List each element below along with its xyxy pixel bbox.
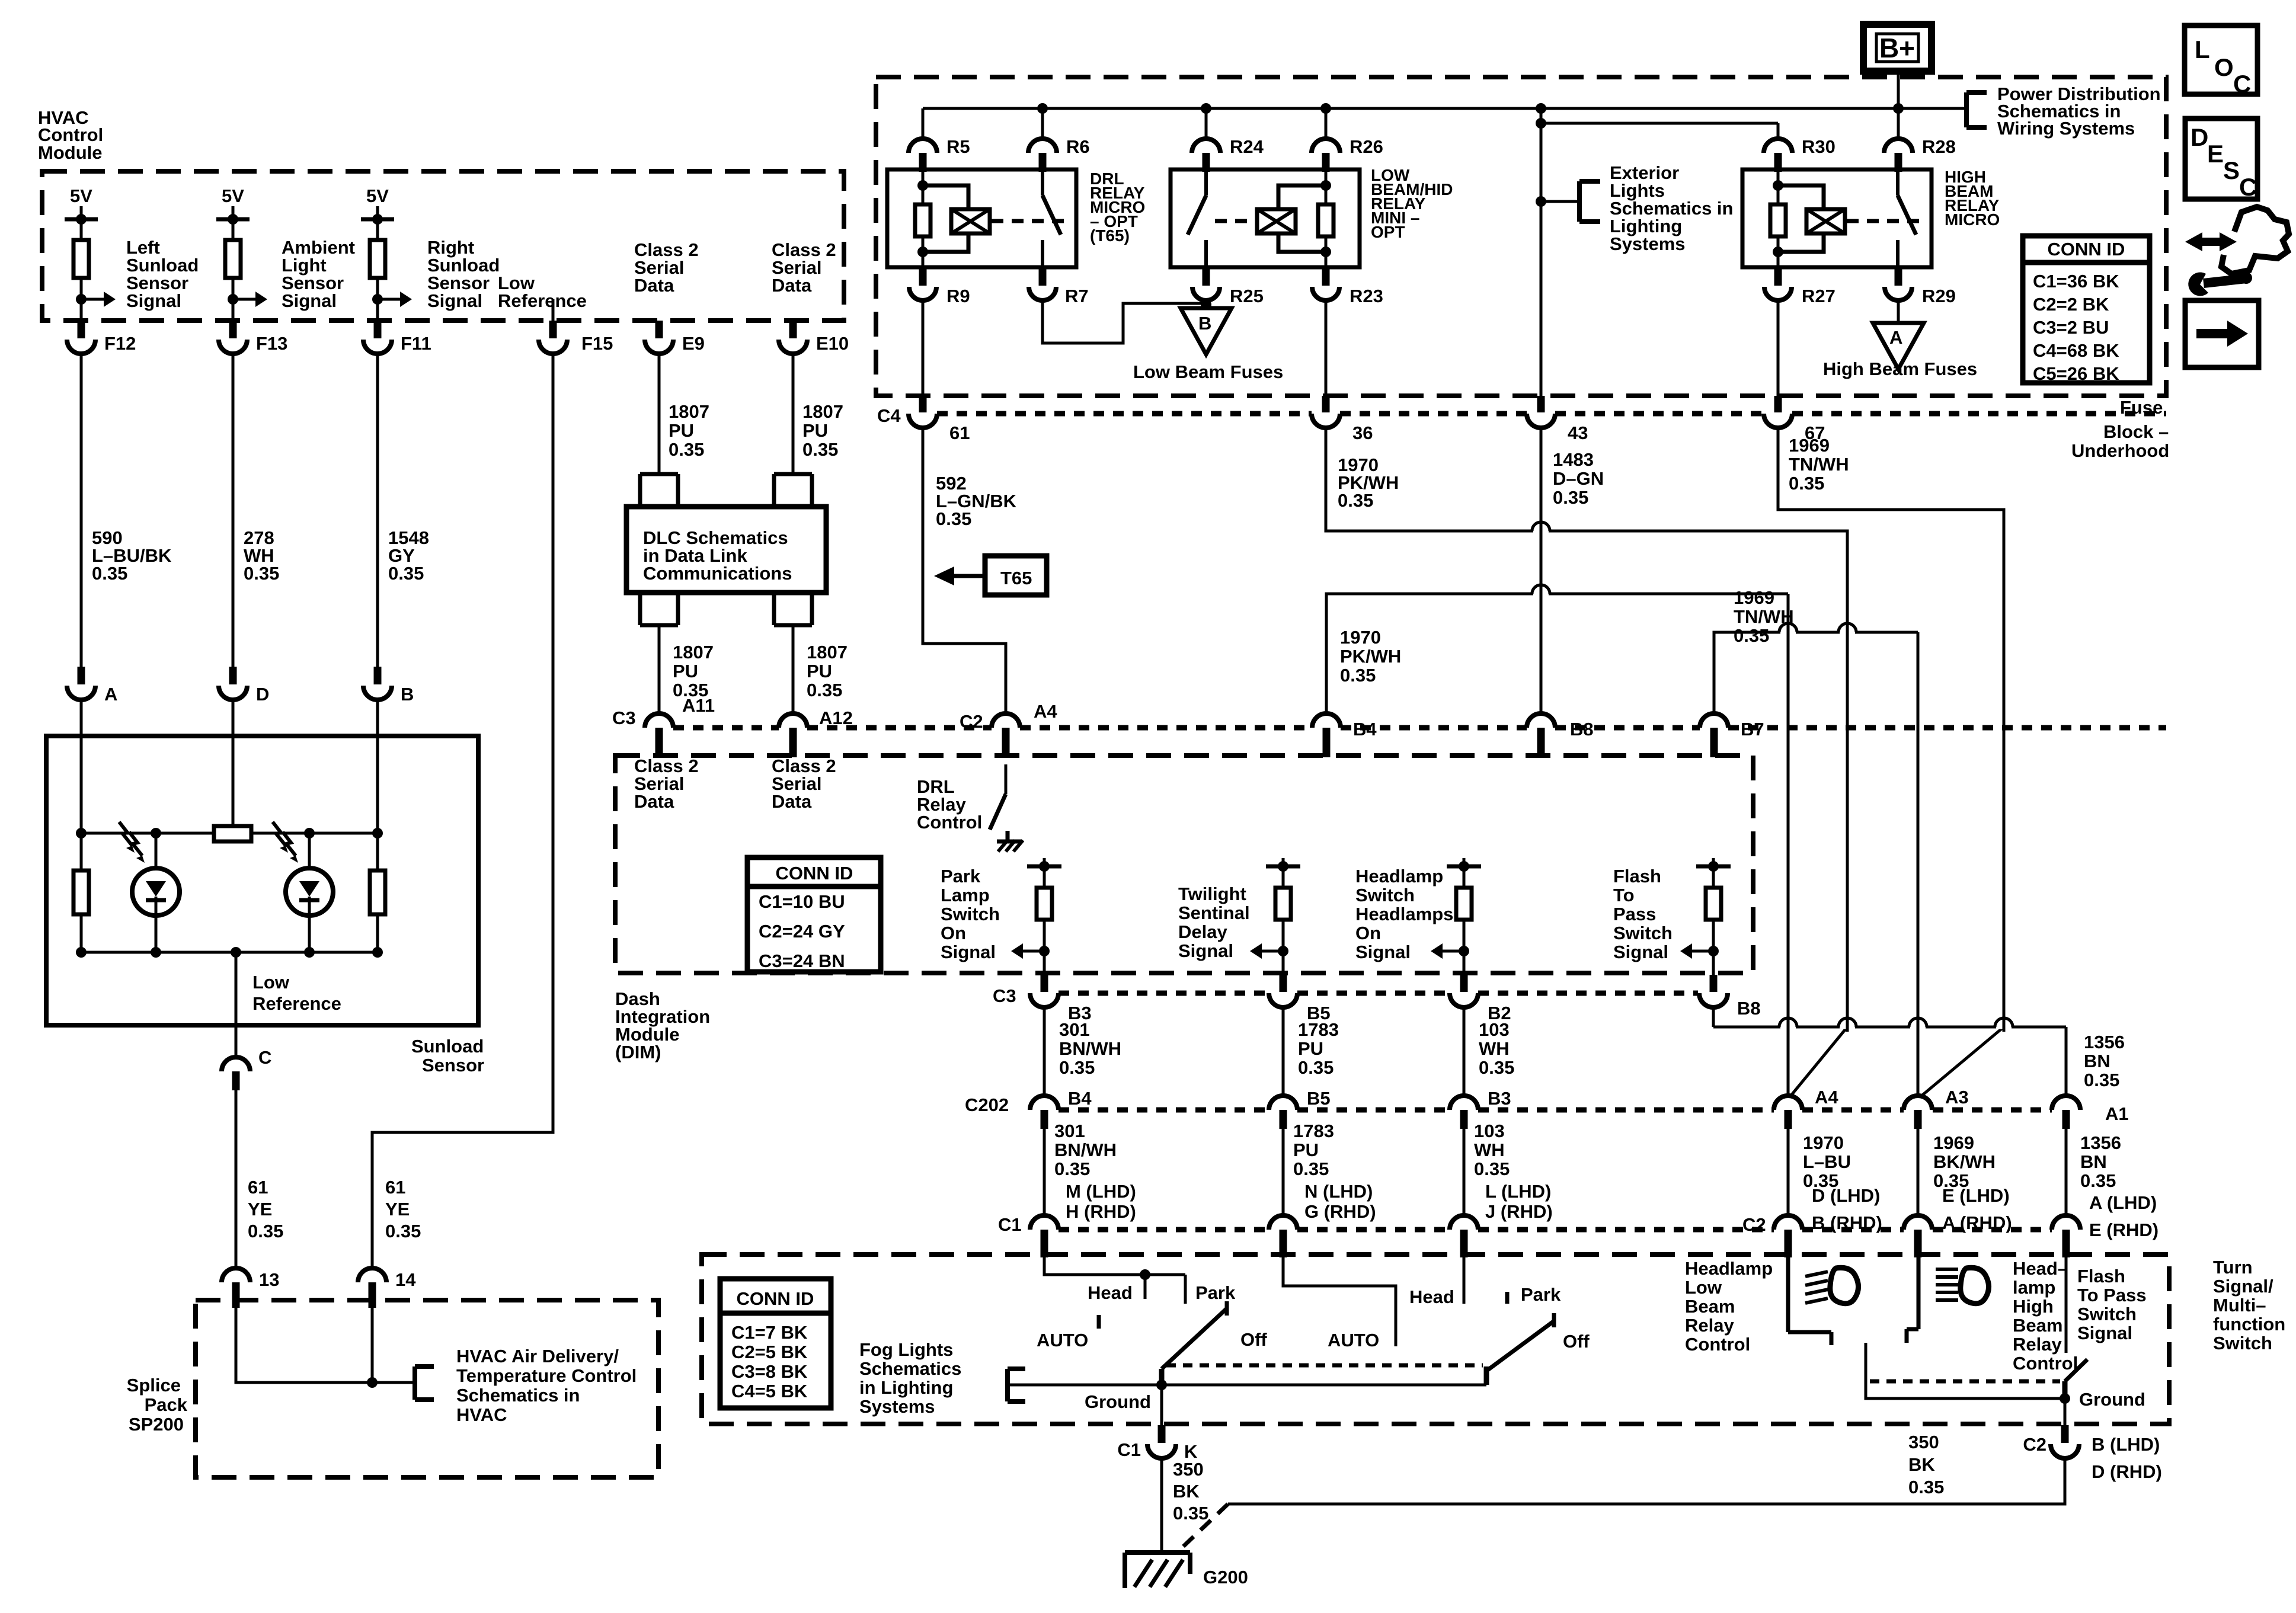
svg-text:D (RHD): D (RHD) [2092,1461,2162,1482]
svg-text:C3: C3 [993,985,1016,1006]
svg-text:in Lighting: in Lighting [859,1377,953,1398]
svg-text:Signal: Signal [1178,940,1233,961]
svg-text:C5=26 BK: C5=26 BK [2033,363,2119,384]
svg-text:0.35: 0.35 [1908,1477,1944,1497]
svg-text:lamp: lamp [2013,1277,2055,1298]
svg-text:N (LHD): N (LHD) [1304,1181,1373,1202]
svg-text:Park: Park [941,866,981,886]
svg-text:0.35: 0.35 [1054,1158,1090,1179]
svg-text:Beam: Beam [1685,1296,1735,1317]
svg-text:C3=24 BN: C3=24 BN [759,950,845,971]
svg-text:PU: PU [807,661,832,681]
svg-text:YE: YE [248,1199,272,1220]
svg-text:C1: C1 [998,1214,1022,1235]
svg-text:Low: Low [252,972,290,993]
svg-text:High: High [2013,1296,2054,1317]
svg-text:Multi–: Multi– [2213,1295,2266,1316]
svg-text:C1=7 BK: C1=7 BK [731,1322,808,1343]
svg-text:Control: Control [917,812,982,833]
svg-text:CONN ID: CONN ID [737,1288,814,1309]
svg-text:C4=68 BK: C4=68 BK [2033,340,2119,361]
svg-text:1969: 1969 [1734,587,1774,608]
svg-text:0.35: 0.35 [1293,1158,1329,1179]
svg-text:1783: 1783 [1293,1121,1334,1141]
svg-text:Signal: Signal [1355,942,1411,962]
svg-text:Sensor: Sensor [422,1055,484,1076]
svg-text:1807: 1807 [669,401,709,422]
svg-text:A: A [1889,327,1902,348]
svg-text:Sunload: Sunload [411,1036,484,1057]
svg-text:Lamp: Lamp [941,885,990,905]
svg-text:L: L [2195,36,2210,63]
svg-text:Ground: Ground [1085,1391,1151,1412]
svg-text:1483: 1483 [1553,449,1594,470]
svg-text:Signal/: Signal/ [2213,1276,2273,1297]
svg-text:C4: C4 [877,405,901,426]
svg-text:Schematics in: Schematics in [456,1385,580,1406]
svg-text:R26: R26 [1350,136,1383,157]
svg-text:AUTO: AUTO [1037,1330,1088,1350]
svg-text:Data: Data [772,275,812,296]
svg-text:301: 301 [1054,1121,1085,1141]
svg-text:PK/WH: PK/WH [1340,646,1401,667]
svg-text:5V: 5V [70,185,92,206]
svg-text:A4: A4 [1815,1087,1838,1108]
svg-text:PU: PU [673,661,698,681]
svg-text:BK/WH: BK/WH [1933,1151,1996,1172]
svg-text:Signal: Signal [282,290,337,311]
svg-text:G (RHD): G (RHD) [1304,1201,1376,1222]
svg-text:Control: Control [2013,1353,2078,1374]
svg-text:S: S [2223,156,2240,184]
svg-text:1356: 1356 [2080,1132,2121,1153]
svg-text:On: On [941,923,966,943]
svg-text:B7: B7 [1741,719,1764,740]
svg-text:Signal: Signal [126,290,181,311]
svg-text:AUTO: AUTO [1328,1330,1379,1350]
svg-text:0.35: 0.35 [1340,665,1376,686]
svg-text:1356: 1356 [2084,1032,2125,1052]
svg-text:Signal: Signal [2077,1323,2132,1343]
svg-text:Schematics: Schematics [859,1358,961,1379]
svg-text:R23: R23 [1350,286,1383,306]
svg-text:L–BU: L–BU [1803,1151,1851,1172]
svg-text:C2=2 BK: C2=2 BK [2033,294,2109,315]
svg-text:R9: R9 [946,286,970,306]
svg-text:A1: A1 [2105,1103,2129,1124]
svg-text:Signal: Signal [941,942,996,962]
svg-text:B+: B+ [1879,33,1915,63]
svg-text:350: 350 [1908,1432,1939,1452]
svg-text:C2=5 BK: C2=5 BK [731,1342,808,1362]
svg-text:F15: F15 [581,333,613,354]
svg-text:R27: R27 [1802,286,1835,306]
svg-text:1969: 1969 [1933,1132,1974,1153]
svg-text:Block –: Block – [2103,421,2169,442]
svg-text:C1=10 BU: C1=10 BU [759,891,845,912]
svg-text:WH: WH [1479,1038,1510,1059]
svg-text:PU: PU [1298,1038,1323,1059]
svg-text:36: 36 [1352,423,1373,443]
svg-text:B: B [1198,313,1211,334]
svg-text:F12: F12 [104,333,136,354]
svg-text:OPT: OPT [1371,223,1405,241]
svg-text:C4=5 BK: C4=5 BK [731,1381,808,1401]
svg-text:Systems: Systems [1610,233,1686,254]
svg-text:61: 61 [248,1177,268,1198]
svg-text:C1=36 BK: C1=36 BK [2033,271,2119,292]
svg-text:R29: R29 [1922,286,1956,306]
svg-text:Fog Lights: Fog Lights [859,1339,953,1360]
svg-text:C3=2 BU: C3=2 BU [2033,317,2109,338]
svg-text:Flash: Flash [1613,866,1661,886]
svg-text:A4: A4 [1034,701,1057,722]
svg-text:Splice: Splice [127,1375,181,1396]
svg-text:Reference: Reference [498,290,587,311]
svg-text:0.35: 0.35 [388,563,424,584]
svg-text:0.35: 0.35 [2084,1070,2119,1090]
svg-text:A12: A12 [819,708,853,728]
svg-text:Pass: Pass [1613,904,1656,924]
svg-text:PU: PU [802,420,828,441]
svg-text:Underhood: Underhood [2071,440,2169,461]
svg-text:C3=8 BK: C3=8 BK [731,1361,808,1382]
svg-text:D: D [2191,123,2208,151]
svg-text:5V: 5V [366,185,389,206]
svg-text:0.35: 0.35 [385,1221,421,1241]
svg-text:PU: PU [669,420,694,441]
svg-text:SP200: SP200 [129,1414,184,1435]
svg-text:13: 13 [259,1269,279,1290]
svg-text:1807: 1807 [673,642,714,663]
svg-text:Head: Head [1088,1282,1133,1303]
svg-text:Low: Low [1685,1277,1722,1298]
svg-text:Switch: Switch [1355,885,1415,905]
svg-text:C2: C2 [1742,1214,1766,1235]
svg-text:0.35: 0.35 [669,439,704,460]
svg-text:0.35: 0.35 [1338,490,1373,511]
svg-text:Data: Data [634,275,674,296]
svg-text:Signal: Signal [427,290,482,311]
svg-text:103: 103 [1474,1121,1505,1141]
svg-text:Flash: Flash [2077,1266,2125,1286]
svg-text:E9: E9 [682,333,705,354]
svg-text:Reference: Reference [252,993,341,1014]
svg-text:D–GN: D–GN [1553,468,1604,489]
svg-text:L (LHD): L (LHD) [1485,1181,1551,1202]
svg-text:C3: C3 [612,708,636,728]
svg-text:43: 43 [1568,423,1588,443]
svg-text:(T65): (T65) [1090,226,1130,245]
svg-text:Turn: Turn [2213,1257,2253,1278]
svg-text:B3: B3 [1488,1088,1511,1109]
svg-text:R6: R6 [1066,136,1090,157]
svg-text:PU: PU [1293,1140,1319,1160]
svg-text:0.35: 0.35 [1474,1158,1510,1179]
svg-text:M (LHD): M (LHD) [1066,1181,1136,1202]
svg-text:T65: T65 [1000,568,1032,588]
svg-text:Relay: Relay [2013,1334,2062,1355]
svg-text:Head: Head [1409,1286,1454,1307]
svg-text:B (LHD): B (LHD) [2092,1434,2160,1455]
svg-text:Switch: Switch [941,904,1000,924]
svg-text:0.35: 0.35 [1059,1057,1095,1078]
svg-text:Beam: Beam [2013,1315,2062,1336]
svg-text:E (LHD): E (LHD) [1942,1185,2010,1206]
svg-text:A (LHD): A (LHD) [2089,1192,2157,1213]
svg-text:1970: 1970 [1803,1132,1844,1153]
svg-text:H (RHD): H (RHD) [1066,1201,1136,1222]
svg-text:YE: YE [385,1199,410,1220]
svg-text:Off: Off [1563,1331,1590,1352]
svg-text:Off: Off [1240,1329,1267,1350]
svg-text:5V: 5V [222,185,244,206]
svg-text:WH: WH [1474,1140,1505,1160]
svg-text:CONN ID: CONN ID [2048,239,2125,260]
svg-text:1969: 1969 [1789,435,1830,456]
svg-text:B8: B8 [1570,719,1594,740]
svg-text:BK: BK [1908,1454,1935,1475]
svg-text:C: C [2239,173,2257,201]
svg-text:Head–: Head– [2013,1258,2068,1279]
svg-text:Relay: Relay [1685,1315,1734,1336]
svg-text:HVAC Air Delivery/: HVAC Air Delivery/ [456,1346,619,1366]
svg-text:E10: E10 [816,333,849,354]
svg-text:BK: BK [1173,1481,1200,1502]
svg-text:D: D [256,684,269,705]
svg-text:103: 103 [1479,1019,1510,1040]
svg-text:Control: Control [1685,1334,1750,1355]
svg-text:Switch: Switch [1613,923,1673,943]
svg-text:function: function [2213,1314,2285,1334]
svg-text:E: E [2207,140,2224,168]
svg-text:14: 14 [395,1269,416,1290]
svg-text:BN/WH: BN/WH [1059,1038,1121,1059]
svg-text:BN: BN [2080,1151,2107,1172]
svg-text:D (LHD): D (LHD) [1812,1185,1880,1206]
svg-text:Park: Park [1521,1284,1561,1305]
svg-text:R25: R25 [1230,286,1264,306]
svg-text:Headlamp: Headlamp [1355,866,1443,886]
svg-text:Sentinal: Sentinal [1178,902,1250,923]
svg-text:301: 301 [1059,1019,1090,1040]
svg-text:BN/WH: BN/WH [1054,1140,1117,1160]
svg-text:61: 61 [385,1177,405,1198]
svg-text:Module: Module [38,142,103,163]
svg-text:0.35: 0.35 [244,563,279,584]
svg-text:Low Beam Fuses: Low Beam Fuses [1133,361,1283,382]
svg-text:B5: B5 [1307,1088,1331,1109]
svg-text:Communications: Communications [643,563,792,584]
svg-text:B4: B4 [1353,719,1377,740]
svg-text:1970: 1970 [1340,627,1381,648]
svg-text:Ground: Ground [2079,1389,2145,1410]
svg-text:R30: R30 [1802,136,1835,157]
svg-text:To Pass: To Pass [2077,1285,2147,1305]
svg-text:Signal: Signal [1613,942,1668,962]
svg-text:Headlamp: Headlamp [1685,1258,1773,1279]
svg-text:BN: BN [2084,1051,2110,1071]
svg-text:Temperature Control: Temperature Control [456,1365,637,1386]
svg-text:Delay: Delay [1178,921,1227,942]
svg-text:HVAC: HVAC [456,1404,507,1425]
svg-text:C: C [258,1047,271,1068]
svg-text:C1: C1 [1117,1439,1141,1460]
svg-text:Switch: Switch [2077,1304,2137,1324]
svg-text:CONN ID: CONN ID [776,863,853,884]
svg-text:Data: Data [772,791,812,812]
svg-text:0.35: 0.35 [2080,1170,2116,1191]
svg-text:Pack: Pack [145,1394,188,1415]
svg-text:To: To [1613,885,1635,905]
svg-text:(DIM): (DIM) [615,1042,661,1062]
svg-text:O: O [2214,53,2234,81]
svg-text:0.35: 0.35 [1553,487,1588,508]
svg-text:0.35: 0.35 [936,508,971,529]
svg-text:R7: R7 [1065,286,1089,306]
svg-text:0.35: 0.35 [802,439,838,460]
svg-text:B8: B8 [1737,998,1761,1019]
svg-text:1807: 1807 [807,642,848,663]
svg-text:Switch: Switch [2213,1333,2272,1353]
svg-text:A: A [104,684,117,705]
svg-text:R28: R28 [1922,136,1956,157]
svg-text:0.35: 0.35 [807,680,842,700]
svg-text:J (RHD): J (RHD) [1485,1201,1553,1222]
svg-text:High Beam Fuses: High Beam Fuses [1823,359,1977,379]
svg-text:B4: B4 [1068,1088,1092,1109]
svg-text:0.35: 0.35 [248,1221,283,1241]
svg-text:1783: 1783 [1298,1019,1339,1040]
svg-text:0.35: 0.35 [1173,1503,1208,1524]
svg-text:TN/WH: TN/WH [1789,454,1849,475]
svg-text:61: 61 [949,423,970,443]
svg-text:R5: R5 [946,136,970,157]
svg-text:On: On [1355,923,1381,943]
svg-text:G200: G200 [1203,1567,1248,1588]
svg-text:0.35: 0.35 [92,563,127,584]
svg-text:350: 350 [1173,1459,1204,1480]
svg-text:A11: A11 [682,695,715,716]
svg-text:Twilight: Twilight [1178,884,1246,904]
svg-text:Park: Park [1195,1282,1236,1303]
svg-text:B: B [401,684,414,705]
svg-text:C202: C202 [965,1094,1009,1115]
svg-text:F13: F13 [256,333,287,354]
svg-text:Systems: Systems [859,1396,935,1417]
svg-text:C2=24 GY: C2=24 GY [759,921,845,942]
svg-text:0.35: 0.35 [1479,1057,1514,1078]
svg-text:F11: F11 [401,333,431,354]
svg-text:Headlamps: Headlamps [1355,904,1453,924]
svg-text:C2: C2 [960,711,983,732]
svg-text:A3: A3 [1945,1087,1969,1108]
svg-text:MICRO: MICRO [1945,210,2000,229]
svg-text:E (RHD): E (RHD) [2089,1220,2159,1240]
svg-text:0.35: 0.35 [1734,625,1769,646]
svg-text:0.35: 0.35 [1298,1057,1334,1078]
svg-text:C2: C2 [2023,1434,2046,1455]
svg-text:R24: R24 [1230,136,1264,157]
svg-text:Wiring Systems: Wiring Systems [1997,118,2135,139]
svg-text:C: C [2233,70,2251,98]
svg-text:0.35: 0.35 [1789,473,1824,494]
svg-text:Data: Data [634,791,674,812]
svg-text:1807: 1807 [802,401,843,422]
